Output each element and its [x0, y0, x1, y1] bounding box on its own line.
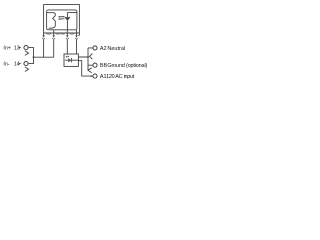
svg-text:Neutral: Neutral	[107, 46, 125, 52]
svg-text:Ground (optional): Ground (optional)	[107, 63, 147, 69]
svg-text:14: 14	[14, 62, 20, 68]
svg-text:In+: In+	[3, 46, 10, 52]
svg-text:13: 13	[14, 46, 20, 52]
svg-text:120 AC input: 120 AC input	[106, 74, 135, 80]
svg-text:A2: A2	[100, 46, 107, 52]
svg-text:In-: In-	[3, 62, 9, 68]
